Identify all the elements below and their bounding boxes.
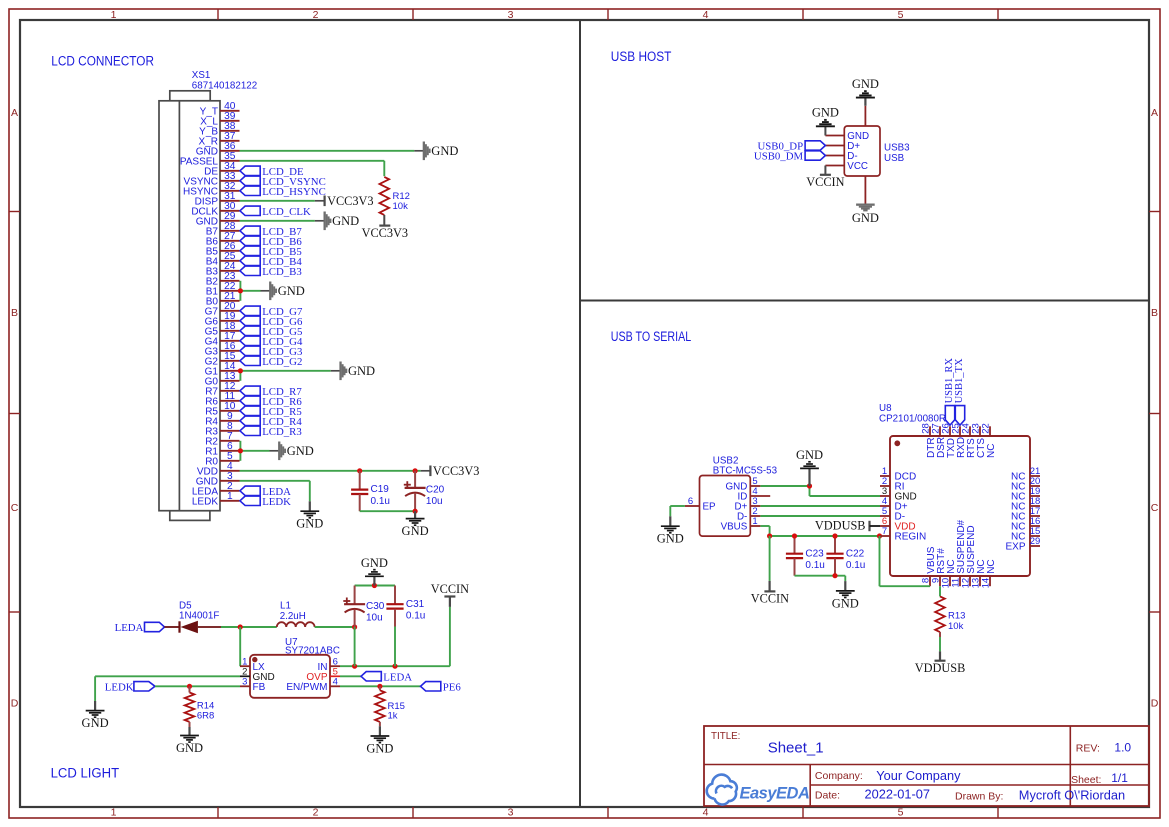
resistor R15 bbox=[375, 686, 385, 726]
ground GND above wire bbox=[796, 448, 823, 486]
wire XS1 pin36 to GND bbox=[240, 150, 424, 152]
svg-text:GND: GND bbox=[176, 741, 203, 755]
net label USB1_TX bbox=[954, 358, 965, 425]
svg-text:X_L: X_L bbox=[200, 116, 218, 127]
svg-text:Sheet:: Sheet: bbox=[1071, 774, 1101, 786]
svg-text:4: 4 bbox=[227, 461, 233, 472]
junction at C22 bottom bbox=[832, 573, 837, 578]
svg-text:40: 40 bbox=[224, 101, 236, 112]
U8 right pins 21-15 and 29 bbox=[1005, 466, 1040, 553]
svg-text:G2: G2 bbox=[205, 356, 219, 367]
svg-text:2022-01-07: 2022-01-07 bbox=[865, 787, 930, 802]
svg-text:14: 14 bbox=[224, 361, 236, 372]
wire C19-C20 bottom bbox=[360, 510, 415, 512]
title block REV bbox=[1076, 741, 1132, 755]
power flag VDDUSB below R13 bbox=[915, 651, 966, 675]
wire GND rail above caps bbox=[355, 585, 395, 587]
svg-text:NC: NC bbox=[986, 444, 997, 458]
net label LCD_R6 on XS1 pin 11 bbox=[240, 396, 302, 408]
net label LCD_G3 on XS1 pin 16 bbox=[240, 346, 303, 358]
svg-text:16: 16 bbox=[224, 341, 236, 352]
svg-text:27: 27 bbox=[224, 231, 236, 242]
ground GND below C20 bbox=[402, 511, 429, 538]
net label LCD_G2 on XS1 pin 15 bbox=[240, 356, 303, 368]
svg-text:VSYNC: VSYNC bbox=[184, 176, 218, 187]
net label LCD_B5 on XS1 pin 26 bbox=[240, 246, 302, 258]
ground GND at pin36 bbox=[423, 142, 459, 161]
svg-text:4: 4 bbox=[333, 676, 338, 687]
svg-text:USB1_TX: USB1_TX bbox=[954, 358, 965, 403]
svg-text:U8: U8 bbox=[879, 403, 892, 414]
wire U7 GND to left bbox=[95, 676, 240, 701]
wire VCCIN drop bbox=[449, 597, 451, 667]
svg-text:37: 37 bbox=[224, 131, 236, 142]
svg-text:GND: GND bbox=[278, 284, 305, 298]
svg-text:2: 2 bbox=[313, 807, 319, 819]
net label LCD_B4 on XS1 pin 25 bbox=[240, 256, 302, 268]
svg-text:VDD: VDD bbox=[197, 466, 218, 477]
capacitor C31 bbox=[386, 586, 425, 627]
svg-text:GND: GND bbox=[348, 364, 375, 378]
svg-text:B6: B6 bbox=[206, 236, 219, 247]
svg-text:LEDK: LEDK bbox=[262, 496, 291, 508]
net label LEDA input bbox=[115, 622, 165, 634]
svg-text:35: 35 bbox=[224, 151, 236, 162]
section title LCD LIGHT bbox=[51, 766, 120, 782]
capacitor C20 bbox=[404, 471, 445, 511]
svg-text:B: B bbox=[1151, 307, 1158, 319]
svg-text:20: 20 bbox=[224, 301, 236, 312]
svg-text:VCCIN: VCCIN bbox=[751, 592, 789, 606]
svg-text:B: B bbox=[11, 307, 18, 319]
svg-text:Company:: Company: bbox=[815, 770, 863, 782]
net label LCD_G5 on XS1 pin 18 bbox=[240, 326, 303, 338]
title block Drawn By bbox=[955, 788, 1125, 803]
svg-text:14: 14 bbox=[981, 578, 992, 589]
svg-text:G7: G7 bbox=[205, 306, 219, 317]
svg-text:LCD_CLK: LCD_CLK bbox=[262, 206, 311, 218]
net label LCD_B7 on XS1 pin 28 bbox=[240, 226, 302, 238]
svg-text:32: 32 bbox=[224, 181, 236, 192]
svg-text:C: C bbox=[11, 502, 19, 514]
svg-text:5: 5 bbox=[898, 9, 904, 21]
ground GND at pin3 bbox=[296, 501, 323, 530]
U8 reference labels bbox=[879, 403, 946, 424]
svg-text:GND: GND bbox=[196, 216, 218, 227]
svg-text:HSYNC: HSYNC bbox=[183, 186, 218, 197]
U7 first pin dot bbox=[252, 657, 257, 662]
svg-text:R2: R2 bbox=[205, 436, 218, 447]
svg-text:R1: R1 bbox=[205, 446, 218, 457]
svg-text:Drawn By:: Drawn By: bbox=[955, 791, 1003, 803]
resistor R12 bbox=[379, 177, 389, 226]
net label LCD_G7 on XS1 pin 20 bbox=[240, 306, 303, 318]
junction at U8 REGIN bbox=[877, 533, 882, 538]
connector XS1 body bbox=[159, 91, 220, 521]
svg-text:USB TO SERIAL: USB TO SERIAL bbox=[611, 329, 691, 345]
svg-text:23: 23 bbox=[224, 271, 236, 282]
R15 value labels bbox=[388, 701, 405, 722]
svg-text:0.1u: 0.1u bbox=[371, 496, 390, 507]
wire USB3 VCC to VCCIN bbox=[824, 166, 826, 175]
svg-text:22: 22 bbox=[224, 281, 236, 292]
svg-text:R3: R3 bbox=[205, 426, 218, 437]
svg-text:G5: G5 bbox=[205, 326, 219, 337]
svg-text:38: 38 bbox=[224, 121, 236, 132]
svg-text:VDDUSB: VDDUSB bbox=[915, 661, 966, 675]
svg-text:USB0_DM: USB0_DM bbox=[754, 151, 804, 163]
title block TITLE label bbox=[711, 731, 740, 742]
ground GND at pin14 bbox=[339, 362, 375, 381]
svg-text:LEDA: LEDA bbox=[115, 622, 144, 634]
svg-text:Date:: Date: bbox=[815, 790, 840, 802]
svg-text:G6: G6 bbox=[205, 316, 219, 327]
wire C30 drop bbox=[354, 627, 356, 666]
svg-text:34: 34 bbox=[224, 161, 236, 172]
svg-text:13: 13 bbox=[224, 371, 236, 382]
svg-text:X_R: X_R bbox=[199, 136, 218, 147]
junction at LX drop bbox=[238, 624, 243, 629]
title block bbox=[704, 726, 1149, 806]
svg-text:36: 36 bbox=[224, 141, 236, 152]
net label LCD_R3 on XS1 pin 8 bbox=[240, 426, 302, 438]
svg-text:L1: L1 bbox=[280, 600, 291, 611]
svg-text:11: 11 bbox=[225, 391, 236, 402]
wire U7 EN/PWM to PE6 bbox=[340, 685, 421, 687]
svg-text:VCC3V3: VCC3V3 bbox=[362, 226, 408, 240]
junction VBUS at C23 bbox=[792, 533, 797, 538]
power flag VCCIN below USB2 bbox=[751, 581, 789, 606]
svg-text:2.2uH: 2.2uH bbox=[280, 611, 306, 622]
svg-text:R13: R13 bbox=[948, 610, 965, 621]
net label LCD_VSYNC on XS1 pin 33 bbox=[240, 176, 326, 188]
title block Sheet bbox=[1071, 771, 1128, 786]
svg-text:18: 18 bbox=[224, 321, 236, 332]
USB2 pins bbox=[685, 476, 770, 532]
U8 first pin dot bbox=[894, 440, 900, 446]
svg-text:C19: C19 bbox=[371, 484, 390, 495]
junction at R15 top bbox=[377, 684, 382, 689]
wire C23-C22 ground bbox=[795, 576, 846, 581]
net label LCD_CLK on XS1 pin 30 bbox=[240, 206, 311, 218]
net label PE6 bbox=[421, 681, 462, 693]
svg-text:GND: GND bbox=[366, 742, 393, 756]
title block Date bbox=[815, 787, 930, 802]
R13 value labels bbox=[948, 610, 965, 631]
svg-text:R4: R4 bbox=[205, 416, 218, 427]
svg-text:C22: C22 bbox=[846, 548, 865, 559]
net label LCD_R4 on XS1 pin 9 bbox=[240, 416, 302, 428]
svg-text:15: 15 bbox=[224, 351, 236, 362]
junction at C30 bottom bbox=[352, 624, 357, 629]
svg-text:0.1u: 0.1u bbox=[846, 560, 865, 571]
svg-text:EP: EP bbox=[703, 502, 717, 513]
capacitor C22 bbox=[826, 536, 865, 576]
capacitor C30 bbox=[343, 586, 384, 628]
svg-text:USB HOST: USB HOST bbox=[611, 49, 672, 65]
svg-text:EasyEDA: EasyEDA bbox=[740, 785, 810, 803]
svg-text:10u: 10u bbox=[366, 612, 383, 623]
svg-text:28: 28 bbox=[224, 221, 236, 232]
svg-text:1.0: 1.0 bbox=[1114, 741, 1131, 755]
wire tie pins 14-13 bbox=[240, 371, 340, 381]
power flag VDDUSB at U8 VDD bbox=[815, 519, 880, 533]
svg-text:1: 1 bbox=[111, 807, 117, 819]
svg-text:9: 9 bbox=[227, 411, 233, 422]
title block Company bbox=[815, 768, 961, 783]
svg-text:B2: B2 bbox=[206, 276, 219, 287]
net label LEDK bbox=[105, 681, 155, 693]
wire XS1 pin3 to GND bbox=[240, 481, 310, 502]
net label LCD_R7 on XS1 pin 12 bbox=[240, 386, 302, 398]
svg-text:R5: R5 bbox=[205, 406, 218, 417]
svg-text:1: 1 bbox=[227, 491, 233, 502]
section title USB TO SERIAL bbox=[611, 329, 691, 345]
svg-text:GND: GND bbox=[287, 444, 314, 458]
svg-text:NC: NC bbox=[986, 559, 997, 573]
junction at R14 top bbox=[187, 684, 192, 689]
ground GND at pin29 bbox=[324, 212, 360, 231]
junction VBUS at VCCIN drop bbox=[767, 533, 772, 538]
L1 value labels bbox=[280, 600, 306, 622]
wire XS1 pin29 to GND bbox=[240, 220, 325, 222]
svg-text:R7: R7 bbox=[205, 386, 218, 397]
power flag VCCIN below USB3 bbox=[806, 175, 844, 189]
svg-text:2: 2 bbox=[227, 481, 233, 492]
wire VBUS to VCCIN bbox=[769, 536, 771, 581]
svg-text:LEDA: LEDA bbox=[383, 671, 412, 683]
svg-text:G3: G3 bbox=[205, 346, 219, 357]
U8 left pins 1-7 bbox=[880, 466, 926, 543]
svg-text:7: 7 bbox=[882, 526, 887, 537]
junction at pin6 bbox=[238, 448, 243, 453]
svg-text:BTC-MC5S-53: BTC-MC5S-53 bbox=[713, 465, 778, 476]
svg-text:Sheet_1: Sheet_1 bbox=[768, 739, 824, 756]
svg-text:LCD_HSYNC: LCD_HSYNC bbox=[262, 186, 326, 198]
wire XS1 pin31 to VCC3V3 bbox=[240, 200, 325, 202]
svg-text:DE: DE bbox=[204, 166, 218, 177]
svg-text:1: 1 bbox=[111, 9, 117, 21]
U8 bottom pins 8-14 bbox=[921, 519, 997, 588]
svg-text:8: 8 bbox=[227, 421, 233, 432]
wire L1 to C30 node bbox=[315, 626, 355, 628]
svg-text:LCD_R3: LCD_R3 bbox=[262, 426, 302, 438]
svg-text:2: 2 bbox=[313, 9, 319, 21]
wire USB3 top shield to GND bbox=[864, 106, 866, 126]
svg-text:VCCIN: VCCIN bbox=[431, 582, 469, 596]
wire LX drop bbox=[239, 627, 241, 666]
wire U8 VBUS RST# net bbox=[880, 536, 931, 586]
XS1 pins 1-40 with numbers and names bbox=[180, 101, 240, 507]
svg-text:0.1u: 0.1u bbox=[406, 610, 425, 621]
svg-text:17: 17 bbox=[224, 331, 236, 342]
wire VBUS net bbox=[760, 526, 880, 536]
wire U7 IN rail bbox=[340, 665, 450, 667]
svg-text:LCD CONNECTOR: LCD CONNECTOR bbox=[51, 53, 154, 69]
net label LCD_G6 on XS1 pin 19 bbox=[240, 316, 303, 328]
svg-text:VCC3V3: VCC3V3 bbox=[433, 464, 479, 478]
svg-text:LCD LIGHT: LCD LIGHT bbox=[51, 766, 120, 782]
svg-text:4: 4 bbox=[703, 9, 709, 21]
svg-text:C31: C31 bbox=[406, 599, 425, 610]
USB3 pin names bbox=[825, 131, 869, 172]
svg-text:GND: GND bbox=[832, 596, 859, 610]
wire tie pins 23-21 bbox=[240, 281, 270, 301]
junction at C20 bottom bbox=[413, 509, 418, 514]
svg-text:C: C bbox=[1151, 502, 1159, 514]
svg-text:B4: B4 bbox=[206, 256, 219, 267]
connector USB3 body bbox=[844, 126, 880, 176]
svg-text:29: 29 bbox=[1030, 536, 1041, 547]
ground GND left of LCD LIGHT bbox=[82, 701, 109, 730]
svg-text:687140182122: 687140182122 bbox=[192, 80, 257, 91]
svg-text:LCD_G2: LCD_G2 bbox=[262, 356, 302, 368]
svg-text:GND: GND bbox=[402, 524, 429, 538]
wire USB2 GND to U8 GND bbox=[760, 486, 880, 496]
wire LEDA to D5 bbox=[165, 626, 181, 628]
svg-text:A: A bbox=[1151, 107, 1158, 119]
svg-text:Y_T: Y_T bbox=[200, 106, 218, 117]
svg-text:24: 24 bbox=[224, 261, 236, 272]
svg-text:B0: B0 bbox=[206, 296, 219, 307]
svg-text:B7: B7 bbox=[206, 226, 219, 237]
wire USB2 D- to U8 D- bbox=[760, 515, 880, 517]
net label USB1_RX bbox=[944, 357, 955, 425]
IC U8 body bbox=[890, 436, 1030, 576]
net label LCD_HSYNC on XS1 pin 32 bbox=[240, 186, 326, 198]
wire LEDK to U7 FB bbox=[155, 685, 240, 687]
svg-text:G1: G1 bbox=[205, 366, 219, 377]
net label USB0_DP bbox=[757, 141, 825, 153]
svg-text:33: 33 bbox=[224, 171, 236, 182]
svg-text:C30: C30 bbox=[366, 601, 385, 612]
wire VDD rail pin4 bbox=[240, 470, 431, 472]
junction USB2 GND net bbox=[807, 483, 812, 488]
U7 pins bbox=[240, 656, 340, 693]
svg-text:XS1: XS1 bbox=[192, 70, 211, 81]
wire USB2 D+ to U8 D+ bbox=[760, 505, 880, 507]
net label LCD_R5 on XS1 pin 10 bbox=[240, 406, 302, 418]
svg-text:6R8: 6R8 bbox=[197, 710, 214, 721]
USB3 reference labels bbox=[884, 143, 910, 165]
wire USB2 EP to GND bbox=[670, 506, 685, 516]
USB2 reference labels bbox=[713, 455, 778, 476]
net label LCD_G4 on XS1 pin 17 bbox=[240, 336, 303, 348]
svg-text:SY7201ABC: SY7201ABC bbox=[285, 646, 340, 657]
capacitor C23 bbox=[786, 536, 825, 576]
svg-text:3: 3 bbox=[508, 807, 514, 819]
ground GND at pin6 bbox=[278, 442, 314, 461]
svg-text:GND: GND bbox=[296, 517, 323, 531]
svg-text:19: 19 bbox=[224, 311, 236, 322]
section title LCD CONNECTOR bbox=[51, 53, 154, 69]
ground GND below C22 bbox=[832, 581, 859, 610]
diode D5 bbox=[180, 621, 222, 633]
svg-text:GND: GND bbox=[361, 556, 388, 570]
svg-text:GND: GND bbox=[852, 211, 879, 225]
ground GND below R15 bbox=[366, 726, 393, 755]
net label LCD_DE on XS1 pin 34 bbox=[240, 166, 304, 178]
svg-text:5: 5 bbox=[898, 807, 904, 819]
junction GND rail bbox=[372, 583, 377, 588]
svg-text:EN/PWM: EN/PWM bbox=[286, 682, 327, 693]
net label LEDK on XS1 pin 1 bbox=[240, 496, 291, 508]
ground GND below USB3 bbox=[852, 204, 879, 225]
IC U7 body bbox=[250, 655, 330, 698]
connector USB2 body bbox=[700, 476, 751, 537]
svg-text:A: A bbox=[11, 107, 18, 119]
svg-text:1k: 1k bbox=[388, 710, 398, 721]
svg-text:B3: B3 bbox=[206, 266, 219, 277]
svg-text:1N4001F: 1N4001F bbox=[179, 611, 219, 622]
svg-text:B1: B1 bbox=[206, 286, 219, 297]
svg-text:Your Company: Your Company bbox=[876, 768, 961, 783]
svg-text:26: 26 bbox=[224, 241, 236, 252]
net label LCD_B6 on XS1 pin 27 bbox=[240, 236, 302, 248]
EasyEDA logo bbox=[707, 775, 810, 805]
svg-text:6: 6 bbox=[688, 496, 693, 507]
power flag VCC3V3 at pin31 bbox=[325, 194, 374, 208]
svg-text:VCCIN: VCCIN bbox=[806, 175, 844, 189]
junction VDD at C20 bbox=[413, 468, 418, 473]
svg-text:REV:: REV: bbox=[1076, 743, 1100, 755]
svg-text:VCC3V3: VCC3V3 bbox=[327, 194, 373, 208]
R12 value labels bbox=[393, 191, 410, 212]
svg-text:GND: GND bbox=[796, 448, 823, 462]
junction IN at C30 drop bbox=[352, 664, 357, 669]
svg-text:LEDK: LEDK bbox=[105, 681, 134, 693]
wire D5 to L1 bbox=[221, 626, 277, 628]
svg-text:VCC: VCC bbox=[847, 161, 868, 172]
wire tie pins 7-5 bbox=[240, 441, 279, 461]
svg-text:3: 3 bbox=[508, 9, 514, 21]
ground GND at USB2 EP bbox=[657, 516, 684, 545]
ground GND below R14 bbox=[176, 727, 203, 755]
svg-text:3: 3 bbox=[242, 676, 247, 687]
svg-text:USB3: USB3 bbox=[884, 143, 910, 154]
svg-text:GND: GND bbox=[196, 146, 218, 157]
svg-text:Y_B: Y_B bbox=[199, 126, 218, 137]
svg-text:PE6: PE6 bbox=[443, 681, 462, 693]
resistor R13 bbox=[935, 596, 945, 651]
svg-text:R0: R0 bbox=[205, 456, 218, 467]
svg-text:GND: GND bbox=[852, 77, 879, 91]
svg-text:12: 12 bbox=[224, 381, 236, 392]
svg-text:REGIN: REGIN bbox=[895, 532, 927, 543]
svg-text:LEDK: LEDK bbox=[192, 496, 218, 507]
junction VDD at C19 bbox=[357, 468, 362, 473]
ground GND above C30 C31 bbox=[361, 556, 388, 586]
junction at pin22 bbox=[238, 288, 243, 293]
D5 reference labels bbox=[179, 600, 219, 621]
svg-text:G0: G0 bbox=[205, 376, 219, 387]
wire USB3 bottom shield to GND bbox=[864, 176, 866, 204]
junction at pin14 bbox=[238, 368, 243, 373]
svg-text:Mycroft O\'Riordan: Mycroft O\'Riordan bbox=[1019, 788, 1125, 803]
svg-text:G4: G4 bbox=[205, 336, 219, 347]
svg-text:EXP: EXP bbox=[1005, 542, 1025, 553]
capacitor C19 bbox=[351, 471, 390, 511]
svg-text:31: 31 bbox=[224, 191, 236, 202]
wire RST# to R13 bbox=[939, 586, 941, 596]
svg-text:LCD_B3: LCD_B3 bbox=[262, 266, 302, 278]
U7 reference labels bbox=[285, 637, 340, 657]
svg-text:10: 10 bbox=[224, 401, 236, 412]
svg-text:DISP: DISP bbox=[195, 196, 219, 207]
svg-text:GND: GND bbox=[196, 476, 218, 487]
svg-text:GND: GND bbox=[657, 532, 684, 546]
svg-text:R6: R6 bbox=[205, 396, 218, 407]
